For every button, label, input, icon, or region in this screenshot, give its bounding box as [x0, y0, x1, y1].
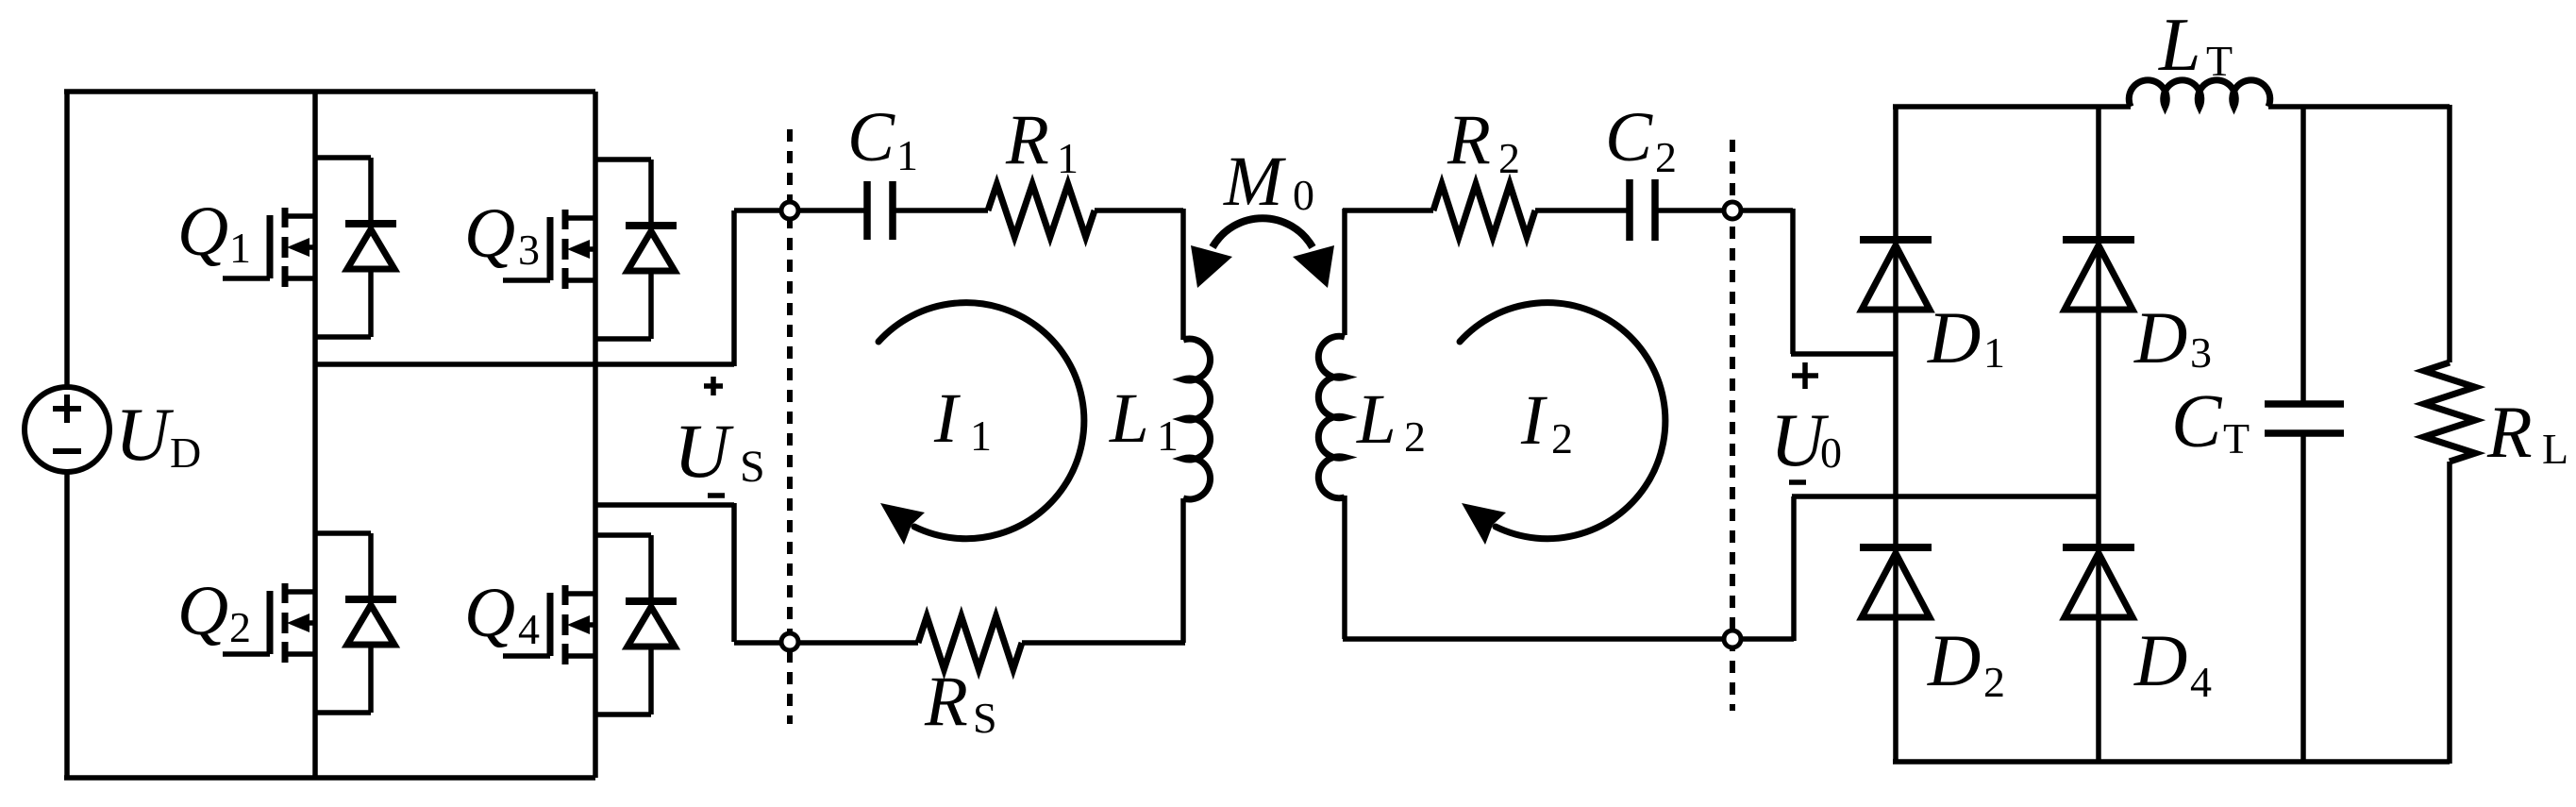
wire C1 to R1 — [895, 208, 988, 213]
svg-text:1: 1 — [1157, 412, 1179, 460]
wire top rail — [64, 89, 595, 94]
label I2 — [1520, 381, 1573, 462]
label I1 — [933, 379, 992, 460]
svg-text:Q: Q — [177, 572, 228, 650]
wire bottom rail — [64, 775, 595, 781]
transistor Q3 (MOSFET) — [503, 210, 595, 289]
dashed boundary line (secondary port) — [1730, 140, 1735, 711]
svg-text:R: R — [1447, 101, 1491, 179]
svg-text:L: L — [1356, 380, 1397, 459]
wire left rail upper — [64, 92, 70, 387]
transistor Q4 (MOSFET) — [503, 585, 595, 664]
wire L2 top and corner — [1343, 209, 1433, 335]
label C1 — [847, 98, 918, 179]
capacitor C1 — [867, 181, 893, 240]
node primary port top — [781, 202, 798, 219]
inductor L1 (4 arcs) — [1183, 339, 1211, 499]
svg-text:U: U — [115, 394, 175, 477]
label D2 — [1927, 619, 2005, 706]
DC source U_D (circle with plus/minus) — [25, 387, 109, 472]
diode D1 — [1860, 240, 1932, 310]
svg-text:C: C — [847, 98, 895, 177]
svg-text:I: I — [933, 379, 961, 458]
diode D2 — [1860, 547, 1932, 617]
svg-text:4: 4 — [2190, 658, 2212, 706]
svg-text:T: T — [2206, 37, 2233, 85]
wire - to bridge right leg — [1792, 494, 2099, 499]
wire RL upper lead — [2447, 105, 2452, 362]
wire bridge left leg — [1893, 107, 1899, 762]
inductor LT (4 arcs) — [2129, 80, 2270, 107]
label D3 — [2133, 296, 2212, 378]
svg-text:S: S — [973, 694, 997, 742]
svg-text:L: L — [2158, 4, 2201, 87]
svg-text:I: I — [1520, 381, 1547, 460]
wire - output rail — [595, 502, 734, 508]
label U_D — [115, 394, 201, 477]
wire bridge bottom rail — [1893, 759, 2450, 765]
svg-text:L: L — [1109, 379, 1149, 458]
wire L2 bottom — [1343, 496, 1732, 639]
wire R2 to C2 — [1535, 208, 1628, 213]
wire left rail lower — [64, 472, 70, 778]
svg-text:R: R — [2486, 391, 2533, 473]
label U_0 with polarity — [1770, 362, 1842, 482]
svg-text:4: 4 — [518, 605, 540, 653]
body diode of Q4 — [595, 535, 677, 715]
wire + to bridge left leg — [1791, 351, 1896, 357]
svg-text:D: D — [1927, 619, 1981, 701]
label LT — [2158, 4, 2233, 87]
svg-text:C: C — [2171, 380, 2223, 463]
wire LT to RL corner — [2268, 104, 2450, 109]
wire - jog up — [1791, 496, 1797, 641]
svg-text:D: D — [2133, 619, 2187, 701]
diode D4 — [2063, 547, 2134, 617]
svg-text:U: U — [674, 408, 734, 494]
wire RL lower lead — [2447, 462, 2452, 764]
svg-text:Q: Q — [464, 194, 515, 273]
wire secondary node to + jog — [1732, 208, 1793, 213]
label RL — [2486, 391, 2568, 473]
wire RS to node — [790, 640, 918, 646]
svg-text:2: 2 — [1498, 134, 1520, 182]
svg-text:C: C — [1605, 98, 1653, 177]
wire C2 to node — [1657, 208, 1732, 213]
svg-text:R: R — [924, 663, 968, 741]
mutual coupling M0 arrow — [1191, 218, 1334, 288]
capacitor CT — [2265, 404, 2344, 433]
wire inverter midpoint rail (+ output) — [315, 361, 734, 367]
svg-text:M: M — [1223, 143, 1286, 221]
body diode of Q1 — [315, 158, 396, 337]
svg-text:S: S — [740, 442, 765, 492]
label D4 — [2133, 619, 2212, 706]
svg-text:2: 2 — [1404, 412, 1426, 461]
svg-text:1: 1 — [1057, 134, 1079, 182]
wire + output jog up — [731, 210, 737, 366]
label Q1 — [177, 193, 251, 272]
svg-text:1: 1 — [970, 412, 992, 460]
transistor Q1 (MOSFET) — [223, 208, 315, 287]
wire inverter left leg — [312, 92, 318, 778]
svg-text:T: T — [2223, 414, 2250, 462]
label Q2 — [177, 572, 251, 651]
svg-text:1: 1 — [229, 224, 251, 272]
svg-text:L: L — [2542, 425, 2568, 473]
svg-text:1: 1 — [896, 131, 918, 179]
label RS — [924, 663, 997, 742]
svg-text:0: 0 — [1293, 171, 1314, 219]
label R2 — [1447, 101, 1520, 182]
svg-text:2: 2 — [1551, 414, 1573, 462]
wire bridge right leg — [2096, 107, 2101, 762]
wire + jog down — [1790, 209, 1796, 354]
resistor R2 — [1433, 184, 1535, 237]
loop current I2 arrow — [1460, 303, 1665, 545]
wire bridge top rail left part — [1893, 104, 2131, 109]
label M0 — [1223, 143, 1314, 221]
svg-text:Q: Q — [177, 193, 228, 271]
svg-text:1: 1 — [1983, 328, 2005, 377]
svg-text:2: 2 — [1983, 658, 2005, 706]
resistor R1 — [988, 184, 1095, 237]
wire node to - jog — [734, 640, 790, 646]
resistor RL — [2424, 362, 2475, 462]
svg-text:2: 2 — [1655, 133, 1677, 181]
svg-text:3: 3 — [2190, 328, 2212, 377]
dashed boundary line (primary port) — [787, 129, 793, 724]
wire R1 to corner and down to L1 — [1095, 209, 1183, 340]
resistor RS — [918, 616, 1022, 669]
body diode of Q3 — [595, 160, 677, 339]
svg-text:D: D — [170, 429, 201, 477]
svg-text:Q: Q — [464, 574, 515, 652]
wire CT upper lead — [2300, 107, 2306, 401]
wire CT lower lead — [2300, 436, 2306, 762]
svg-text:D: D — [2133, 296, 2187, 378]
label C2 — [1605, 98, 1677, 181]
wire inverter right leg — [593, 92, 598, 778]
diode D3 — [2063, 240, 2134, 310]
svg-text:2: 2 — [229, 603, 251, 651]
loop current I1 arrow — [878, 303, 1084, 545]
label D1 — [1927, 296, 2005, 378]
wire secondary bottom node to - jog — [1732, 636, 1794, 642]
inductor L2 (4 arcs) — [1318, 336, 1345, 498]
svg-text:R: R — [1005, 101, 1049, 179]
node secondary port top — [1724, 202, 1741, 219]
node secondary port bottom — [1724, 630, 1741, 647]
label R1 — [1005, 101, 1079, 182]
wire - output jog down — [731, 503, 737, 642]
label Q3 — [464, 194, 540, 274]
transistor Q2 (MOSFET) — [223, 583, 315, 663]
label U_S with polarity — [674, 377, 765, 496]
svg-text:D: D — [1927, 296, 1981, 378]
node primary port bottom — [781, 633, 798, 650]
label L1 — [1109, 379, 1179, 460]
label L2 — [1356, 380, 1426, 461]
body diode of Q2 — [315, 533, 396, 713]
wire primary top (node to C1) — [790, 208, 865, 213]
capacitor C2 — [1630, 179, 1655, 241]
label CT — [2171, 380, 2250, 463]
svg-text:3: 3 — [518, 226, 540, 274]
label Q4 — [464, 574, 540, 653]
wire + jog to node — [734, 208, 790, 213]
wire L1 down and bottom right corner — [1022, 498, 1185, 643]
svg-text:0: 0 — [1820, 429, 1842, 477]
